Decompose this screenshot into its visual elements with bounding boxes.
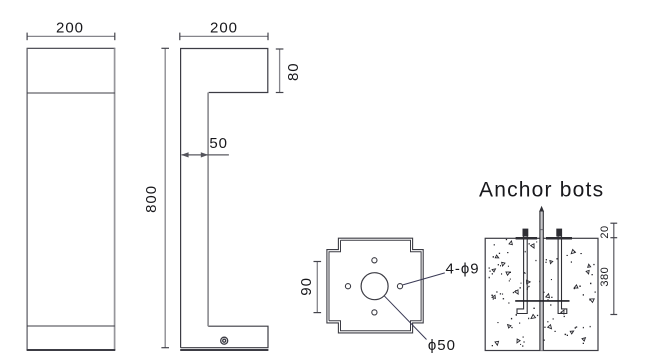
front view lamp-head line	[27, 92, 115, 94]
concrete speckles	[489, 239, 596, 347]
dimension 800	[164, 48, 166, 347]
right anchor bolt shaft	[558, 236, 567, 313]
base plate outer outline	[327, 238, 423, 333]
dimension 200 (side view)	[180, 35, 268, 37]
front view bottom thick line	[27, 349, 116, 351]
front view base line	[27, 325, 115, 327]
svg-text:200: 200	[210, 19, 238, 36]
conduit arrow	[539, 206, 544, 212]
svg-text:90: 90	[298, 277, 315, 296]
side view outline	[181, 49, 268, 348]
svg-text:50: 50	[209, 135, 228, 152]
svg-text:800: 800	[143, 185, 160, 213]
front view body outline	[27, 47, 116, 49]
svg-text:380: 380	[599, 267, 611, 287]
dimension 20 and 380	[613, 223, 615, 314]
svg-text:4-ϕ9: 4-ϕ9	[446, 260, 480, 277]
svg-text:Anchor bots: Anchor bots	[479, 179, 604, 202]
dimension 90	[316, 262, 318, 313]
svg-text:20: 20	[599, 225, 611, 238]
leader phi50	[384, 296, 426, 340]
right bolt washer	[546, 237, 572, 240]
right bolt nut	[556, 229, 562, 237]
leader 4-phi9	[403, 273, 445, 285]
bolt hole top	[372, 258, 377, 263]
bolt hole right	[397, 284, 402, 289]
center hole phi50	[361, 273, 388, 300]
left bolt washer	[516, 237, 538, 240]
left bolt nut	[523, 229, 529, 237]
dimension 50 with arrows	[182, 154, 229, 156]
conduit tube	[540, 212, 543, 351]
side view ground thick line	[180, 349, 268, 351]
left anchor bolt shaft	[517, 236, 527, 313]
base plate inner outline	[329, 240, 421, 330]
svg-text:200: 200	[56, 19, 84, 36]
bolt hole bottom	[372, 310, 377, 315]
svg-text:ϕ50: ϕ50	[428, 337, 456, 354]
svg-text:80: 80	[285, 62, 302, 81]
concrete foundation block	[485, 238, 598, 350]
bolt hole left	[345, 284, 350, 289]
side view inner profile line	[207, 93, 209, 327]
dimension 80	[279, 49, 281, 93]
screw in foot	[221, 337, 228, 344]
template plate line	[515, 300, 569, 302]
dimension 200 (front view)	[27, 35, 115, 37]
